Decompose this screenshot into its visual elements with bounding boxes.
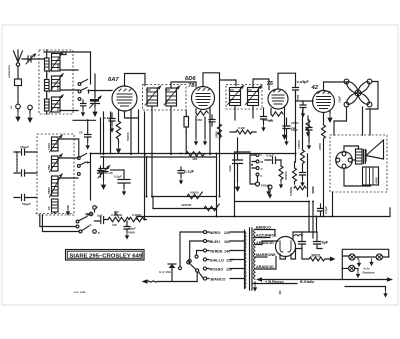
- phono section bottom line: [235, 201, 310, 203]
- screen bus vertical: [216, 154, 218, 217]
- HT bus long line: [137, 208, 390, 217]
- svg-text:10000: 10000: [297, 140, 301, 149]
- svg-text:6A7: 6A7: [108, 77, 119, 83]
- svg-text:ARANCIO: ARANCIO: [256, 265, 274, 269]
- RF primary coil P2: [45, 74, 50, 96]
- wire grid return: [110, 112, 112, 154]
- IFT2 primary coil: [228, 86, 244, 106]
- osc cap 50uuF: [14, 195, 37, 207]
- osc box internal dashed center: [36, 213, 75, 215]
- IFT1 secondary top to 6D6 grid: [171, 82, 196, 88]
- dial lamp 1: [349, 254, 355, 260]
- phono terminal wires: [86, 209, 95, 214]
- svg-text:50µµF: 50µµF: [22, 202, 31, 206]
- speaker plug P1 four-lobe: [344, 79, 372, 107]
- osc switch contacts: [58, 139, 89, 178]
- svg-text:F: F: [261, 174, 263, 178]
- voltage selector BIANCO: [203, 277, 244, 282]
- tube 42: [313, 91, 335, 113]
- pickup selector contacts L M C F: [250, 153, 264, 178]
- svg-text:ROSSO: ROSSO: [210, 268, 224, 272]
- 6A7 screen dropper: [130, 110, 132, 155]
- svg-text:F: F: [98, 231, 100, 235]
- wire L1 bottom to switch: [60, 69, 78, 71]
- IFT2 secondary top to 75 grid: [253, 79, 269, 90]
- svg-text:140: 140: [224, 250, 230, 254]
- speaker box bottom lead: [332, 192, 334, 217]
- svg-text:460: 460: [146, 88, 151, 92]
- osc coil D value 50: [47, 199, 58, 214]
- feed resistor small: [294, 186, 306, 190]
- ground 6A7 cathode: [116, 141, 121, 154]
- osc tracking verticals: [79, 139, 91, 200]
- RF primary coil P3: [45, 96, 50, 114]
- osc coil C: [47, 174, 62, 197]
- padder capacitor: [81, 100, 87, 117]
- svg-text:BLEU: BLEU: [210, 240, 221, 244]
- secondary tap MARRONE: [255, 253, 276, 257]
- coupling capacitor 0,05uF: [293, 80, 310, 93]
- B+ line 420000: [153, 203, 219, 211]
- svg-text:50: 50: [56, 107, 60, 111]
- antenna trimmer capacitor: [22, 54, 44, 64]
- long vertical feeder mid: [219, 80, 221, 197]
- oscillator tracking cap: [101, 112, 104, 154]
- IFT2 secondary bottom lead: [252, 106, 254, 119]
- output transformer: [356, 149, 366, 164]
- svg-text:0,5µF: 0,5µF: [324, 206, 328, 214]
- svg-text:25µµF: 25µµF: [20, 145, 29, 149]
- svg-text:50000: 50000: [190, 191, 199, 195]
- dashed box RF coils: [39, 50, 73, 114]
- tube 6A7: [112, 86, 137, 111]
- RF secondary coil L2 value 550: [50, 74, 64, 92]
- wire anode feed vertical: [128, 110, 139, 154]
- tube 6D6 label: [185, 76, 196, 89]
- svg-text:550: 550: [47, 165, 51, 170]
- IFT1 primary coil: [145, 86, 161, 106]
- speaker box wiring: [344, 146, 371, 186]
- svg-text:BIANCO: BIANCO: [211, 278, 226, 282]
- wire L3 bottom to switch: [60, 110, 78, 112]
- svg-text:NERO: NERO: [210, 231, 221, 235]
- 75 cathode lead: [282, 107, 287, 141]
- phono jack FONO: [250, 175, 272, 199]
- band switch S1c contacts: [76, 213, 92, 233]
- svg-text:1000: 1000: [47, 143, 51, 150]
- volume pot 0,25M: [108, 212, 129, 227]
- mains cord: [142, 272, 198, 284]
- 6A7 bypass cap 0.1uF: [104, 113, 115, 133]
- AF bypass cap 2uF: [283, 118, 297, 146]
- speaker socket: [336, 152, 353, 169]
- svg-text:B.Giallo: B.Giallo: [300, 280, 315, 284]
- svg-text:0,1M: 0,1M: [238, 126, 245, 130]
- plug left lead down: [334, 107, 347, 135]
- ground near output: [268, 192, 270, 194]
- decoupling cap 0,1uF left: [111, 170, 131, 196]
- vertical feeder left of 6A7: [90, 52, 92, 84]
- osc coil A value 1000: [47, 135, 62, 152]
- voltage selector NERO 220: [203, 230, 244, 235]
- rectifier plate feeds: [262, 232, 302, 245]
- voltage selector ROSSO 110: [203, 267, 244, 272]
- decoupling cap right: [300, 166, 306, 187]
- tone cap 0,5uF: [124, 221, 136, 240]
- secondary tap ARANCIO: [255, 241, 274, 245]
- tube 6D6: [192, 87, 215, 110]
- osc padder cap 2: [14, 152, 37, 176]
- HT output resistor 300ohm: [296, 249, 336, 262]
- svg-text:500µµF: 500µµF: [262, 118, 273, 122]
- svg-text:350: 350: [197, 118, 202, 122]
- svg-text:110: 110: [226, 268, 232, 272]
- plug leads to speaker box: [363, 107, 371, 135]
- svg-text:GIALLO: GIALLO: [210, 259, 224, 263]
- svg-text:460: 460: [165, 88, 170, 92]
- IFT2 secondary coil: [246, 86, 262, 106]
- series resistor 0,1M: [129, 213, 147, 222]
- output grid bus: [235, 152, 251, 217]
- svg-text:420000: 420000: [181, 203, 192, 207]
- osc padder cap 25uuF: [14, 145, 37, 155]
- svg-text:SIARE 295–CROSLEY 649: SIARE 295–CROSLEY 649: [70, 254, 143, 260]
- transformer ground: [253, 282, 257, 292]
- voltage selector GIALLO 125: [203, 258, 244, 263]
- ground inside osc box: [66, 206, 70, 216]
- screen cap right column: [306, 120, 312, 150]
- osc box outlet wires: [40, 215, 79, 232]
- long vertical feeder left: [145, 112, 147, 220]
- 75 diode detector caps: [261, 108, 267, 132]
- heater line to pilot: [345, 287, 388, 298]
- filter caps 8uF: [299, 232, 329, 249]
- IFT2 primary bottom lead: [234, 106, 236, 121]
- svg-text:6D6: 6D6: [185, 76, 196, 82]
- svg-text:5000: 5000: [215, 131, 219, 138]
- 6A7 anode feed wire: [125, 111, 129, 118]
- bias cell cap: [266, 186, 270, 196]
- svg-text:0–V 10A: 0–V 10A: [159, 270, 172, 274]
- svg-text:15µF: 15µF: [338, 96, 342, 103]
- lamp box bottom lead arrow: [387, 277, 393, 282]
- svg-text:0,1MΩ: 0,1MΩ: [132, 213, 142, 217]
- wire switch to grid: [89, 91, 113, 94]
- 42 cathode ground: [327, 111, 332, 123]
- plate load resistor 5000: [215, 124, 222, 138]
- 6D6 pin lead: [209, 108, 211, 155]
- transformer core: [250, 228, 253, 290]
- 6D6 bias resistor block: [184, 110, 189, 132]
- IFT1 secondary coil: [164, 86, 180, 106]
- AVC return wire: [73, 119, 96, 121]
- antenna: [14, 50, 23, 79]
- svg-text:o,1µF: o,1µF: [184, 170, 195, 174]
- junction dots: [90, 153, 334, 221]
- svg-text:5850: 5850: [47, 187, 51, 194]
- dial lamp 3: [376, 254, 389, 260]
- svg-text:550: 550: [56, 85, 60, 90]
- choke winding: [294, 235, 302, 237]
- lamp grounds: [355, 257, 374, 278]
- RF secondary coil L3: [50, 95, 64, 113]
- osc grid coupling: [98, 166, 113, 177]
- tuning gang capacitor CV1: [90, 74, 102, 108]
- small mark bottom mid: [279, 291, 281, 294]
- svg-text:460: 460: [192, 157, 197, 161]
- svg-text:4050: 4050: [375, 177, 379, 184]
- svg-text:220: 220: [224, 231, 230, 235]
- svg-text:VERDE: VERDE: [210, 250, 224, 254]
- svg-text:42: 42: [311, 85, 319, 91]
- antenna series fuse: [15, 79, 22, 104]
- wire L1 top tap: [60, 52, 66, 55]
- mid-right vertical feeders: [296, 93, 314, 238]
- svg-text:25: 25: [79, 131, 83, 135]
- terminal T: [10, 104, 21, 122]
- decoupling cap 0,1uF mid: [209, 115, 222, 139]
- svg-text:78: 78: [188, 83, 195, 89]
- svg-text:M: M: [261, 160, 264, 164]
- cathode resistor 42 vertical: [312, 187, 314, 193]
- feeder from bus to power: [309, 202, 317, 233]
- IFT1 primary bottom lead: [151, 106, 153, 197]
- detector filter cap: [228, 138, 243, 192]
- model label box: [66, 250, 145, 261]
- mid bus second line: [101, 156, 217, 158]
- dial lamp 2: [349, 265, 355, 271]
- svg-text:schermo: schermo: [7, 65, 11, 78]
- voltage selector BLEU 160: [203, 239, 244, 244]
- svg-text:8µF: 8µF: [322, 241, 329, 245]
- 0,5uF note: [318, 204, 329, 217]
- terminal F: [27, 105, 32, 123]
- svg-text:500V: 500V: [128, 231, 136, 235]
- svg-text:50000: 50000: [126, 132, 130, 141]
- speaker cone: [366, 140, 384, 161]
- wire L2 bottom to switch: [60, 89, 78, 91]
- svg-text:MARRONE: MARRONE: [256, 253, 276, 257]
- svg-text:75: 75: [267, 81, 274, 87]
- svg-text:1000: 1000: [56, 63, 60, 70]
- bottom bus second: [252, 283, 297, 285]
- coupling cap 0,1uF to 42: [265, 154, 281, 164]
- svg-text:0,1µF: 0,1µF: [114, 175, 122, 179]
- 6A7 cathode resistor 50000: [116, 111, 130, 142]
- volume coupling cap 5uF: [95, 214, 109, 224]
- svg-text:AZZURRO: AZZURRO: [256, 234, 275, 238]
- power switch: [187, 261, 199, 273]
- secondary tap ARANCIO 2: [255, 257, 276, 270]
- ground CV1: [92, 107, 97, 117]
- 6D6 cathode resistor 350: [196, 109, 208, 122]
- svg-text:5µF: 5µF: [97, 214, 103, 218]
- left riser of B+ lines: [137, 197, 153, 220]
- cap 25 to ground: [79, 120, 91, 149]
- svg-text:50: 50: [47, 206, 51, 210]
- ground 6D6: [194, 116, 207, 146]
- lamp label 6,3v: [363, 267, 375, 275]
- 42 bias network labels: [291, 116, 310, 137]
- speaker dashed box: [330, 135, 387, 192]
- grid stopper wire to 42: [296, 93, 314, 101]
- bottom bus B.Rosso: [256, 277, 387, 284]
- svg-text:1W: 1W: [112, 223, 117, 227]
- svg-text:Radame: Radame: [363, 271, 375, 275]
- svg-text:460: 460: [229, 88, 234, 92]
- B+ line 50000: [153, 191, 217, 199]
- rectifier tube 80: [276, 237, 296, 257]
- oscillator dashed box: [37, 134, 74, 215]
- osc coil B value 550: [47, 154, 62, 172]
- mid bus LMF line: [91, 153, 296, 155]
- svg-text:50000: 50000: [284, 171, 288, 180]
- voltage selector VERDE 140: [203, 249, 244, 254]
- grid resistor 0,5M: [289, 162, 297, 196]
- svg-text:BIANCO: BIANCO: [256, 226, 271, 230]
- 75 anode loop: [278, 73, 296, 89]
- field coil: [363, 167, 379, 185]
- phono input terminals: [89, 205, 100, 235]
- 42 anode top wire: [324, 82, 348, 91]
- mains transformer primary: [245, 230, 247, 289]
- IFT1 secondary bottom lead: [170, 106, 172, 154]
- svg-text:160: 160: [224, 240, 230, 244]
- selector feed wires: [180, 232, 203, 267]
- coupling resistor horizontal: [230, 126, 256, 134]
- svg-text:500: 500: [296, 95, 300, 100]
- 42 grid leak cap: [296, 95, 306, 118]
- screen resistor right: [297, 140, 305, 166]
- svg-text:2000: 2000: [318, 143, 322, 150]
- dial lamp box: [341, 249, 388, 279]
- 75 diode load resistor: [268, 109, 283, 124]
- svg-text:L: L: [261, 153, 263, 157]
- svg-text:460: 460: [247, 88, 252, 92]
- 6D6 bias lead: [185, 132, 187, 154]
- 42 bottom lead with resistor: [318, 113, 326, 217]
- AVC cap 0,1uF: [178, 167, 195, 185]
- RF primary coil P1: [45, 50, 50, 77]
- tube 75: [268, 89, 288, 109]
- IFT2 dashed box: [226, 85, 262, 110]
- AVC resistor 1M on bus: [186, 152, 204, 161]
- IFT1 dashed box: [143, 85, 187, 111]
- svg-text:25µF: 25µF: [291, 128, 298, 132]
- plug outer return loop: [366, 82, 378, 110]
- tuning gang capacitor CV2: [98, 157, 110, 191]
- rectifier cathode lead: [280, 249, 296, 260]
- svg-text:o,o5µF: o,o5µF: [297, 80, 310, 84]
- svg-text:a.c. rete: a.c. rete: [74, 290, 86, 294]
- svg-text:125: 125: [226, 259, 232, 263]
- secondary tap BIANCO: [255, 226, 275, 237]
- 6A7 grid cap loop: [125, 74, 146, 87]
- transformer secondary: [254, 229, 256, 279]
- grid resistor 50000: [279, 160, 288, 189]
- wire box1 top to bus: [44, 51, 91, 53]
- detector load cap 500uuF: [262, 118, 273, 122]
- secondary tap AZZURRO: [255, 234, 275, 238]
- svg-text:0,5MΩ: 0,5MΩ: [289, 186, 293, 196]
- svg-text:10µF: 10µF: [228, 165, 232, 172]
- fuse lamp: [159, 264, 176, 282]
- 6D6 anode loop: [203, 73, 236, 87]
- RF secondary coil L1 value 1000: [50, 52, 64, 72]
- band switch S1a contacts: [78, 80, 89, 101]
